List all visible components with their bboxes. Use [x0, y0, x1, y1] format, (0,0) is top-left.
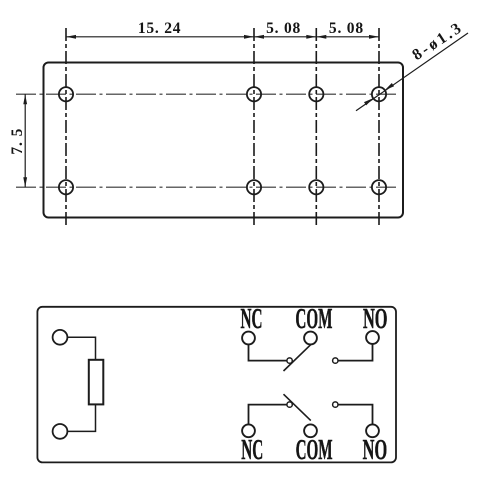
wire NC bottom	[249, 405, 287, 425]
hole A3	[309, 87, 323, 101]
hole B1	[59, 180, 73, 194]
wire coil bottom	[68, 404, 96, 431]
center line row 2	[16, 186, 397, 188]
NO contact point bottom	[333, 402, 338, 407]
svg-text:NO: NO	[363, 435, 388, 466]
hole B3	[309, 180, 323, 194]
hole B2	[247, 180, 261, 194]
svg-text:NO: NO	[363, 304, 388, 335]
dimension line 5.08 second	[316, 35, 379, 39]
pin NO bottom	[366, 424, 379, 437]
NC contact point bottom	[287, 402, 292, 407]
NO contact point top	[333, 358, 338, 363]
pin NO top	[366, 331, 379, 344]
hole B4	[372, 180, 386, 194]
center line column 4	[378, 28, 380, 228]
center line column 2	[253, 28, 255, 228]
center line column 1	[65, 28, 67, 228]
NC contact point top	[287, 358, 292, 363]
leader line 8-dia1.3	[356, 33, 468, 111]
relay outline (bottom view)	[37, 307, 396, 463]
svg-text:NC: NC	[241, 435, 263, 466]
COM movable arm bottom	[284, 394, 311, 420]
dimension line 5.08 first	[254, 35, 316, 39]
hole A4	[372, 87, 386, 101]
svg-text:COM: COM	[295, 304, 332, 335]
wire coil top	[68, 337, 96, 360]
wire NC top	[249, 344, 287, 360]
hole A2	[247, 87, 261, 101]
coil pin 1	[53, 330, 68, 345]
svg-text:7. 5: 7. 5	[9, 128, 26, 155]
dimension line 15.24	[66, 35, 254, 39]
dimension 7.5 vertical line	[23, 94, 27, 187]
svg-text:15. 24: 15. 24	[138, 20, 182, 37]
svg-text:NC: NC	[241, 304, 263, 335]
svg-text:5. 08: 5. 08	[266, 20, 301, 37]
wire NO top	[338, 344, 372, 361]
svg-text:8-ø1.3: 8-ø1.3	[409, 19, 466, 64]
relay base outline (top view)	[44, 63, 404, 218]
svg-text:5. 08: 5. 08	[329, 20, 364, 37]
hole A1	[59, 87, 73, 101]
center line row 1	[16, 93, 397, 95]
coil pin 2	[53, 424, 68, 439]
pin NC top	[242, 332, 255, 345]
pin COM top	[304, 332, 317, 345]
wire NO bottom	[338, 405, 372, 425]
pin NC bottom	[242, 424, 255, 437]
center line column 3	[315, 28, 317, 228]
svg-text:COM: COM	[296, 435, 333, 466]
pin COM bottom	[304, 424, 317, 437]
coil K	[89, 360, 104, 405]
COM movable arm top	[284, 345, 311, 371]
